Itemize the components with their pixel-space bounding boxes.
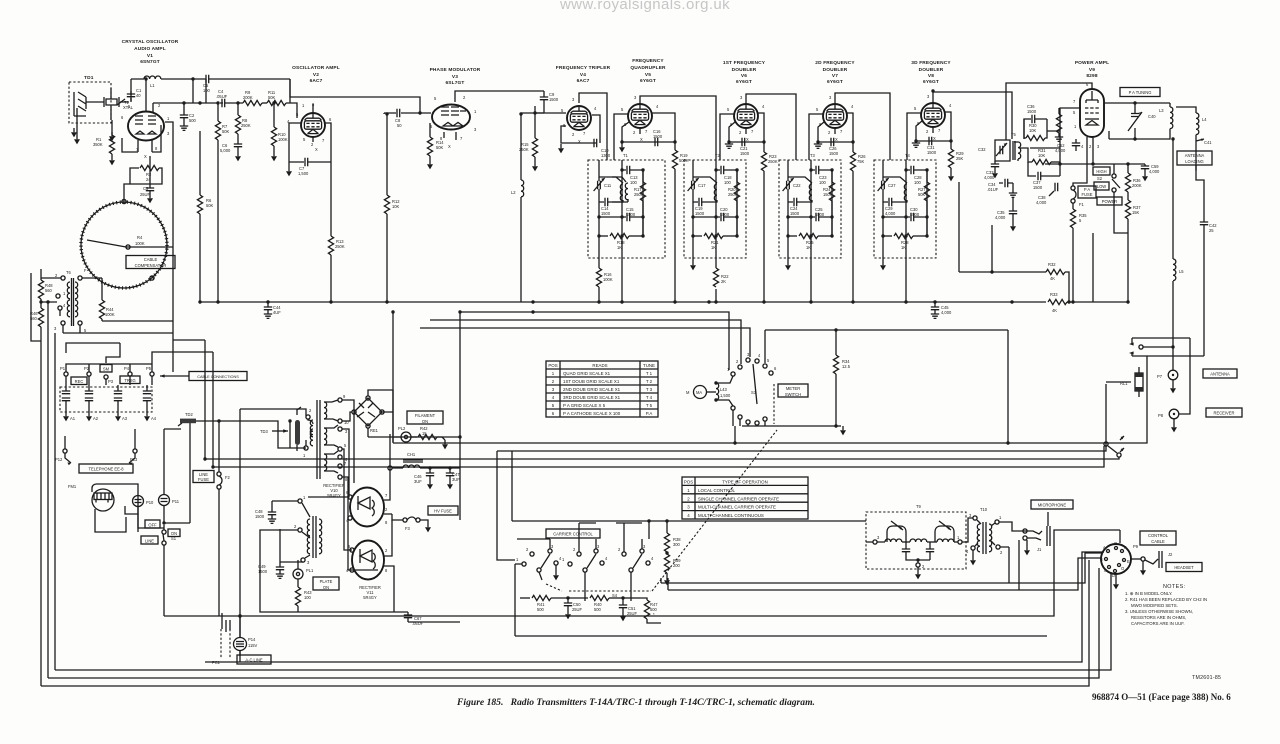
capacitor C1 40: [127, 88, 142, 102]
tube V5: [628, 104, 652, 128]
svg-text:6Y6GT: 6Y6GT: [923, 79, 939, 85]
plug P4: [124, 366, 132, 385]
svg-text:V7: V7: [832, 73, 838, 79]
transformer T2 dashed box: [684, 153, 746, 258]
resistor R44 100K: [63, 278, 173, 333]
label RECEIVER: [1206, 408, 1242, 417]
inductor L1: [144, 76, 161, 88]
svg-text:100: 100: [304, 595, 312, 600]
svg-text:OSCILLATOR AMPL: OSCILLATOR AMPL: [292, 65, 340, 71]
svg-text:TD3: TD3: [260, 429, 268, 434]
label POWER: [1097, 197, 1122, 205]
resistor R10 100K: [271, 103, 288, 161]
svg-text:MA: MA: [696, 390, 702, 395]
transformer T1 dashed box: [588, 153, 665, 258]
crystal T1: [104, 97, 134, 110]
svg-text:A2: A2: [93, 416, 99, 421]
capacitor C33 4,000: [984, 161, 999, 180]
svg-text:POS: POS: [684, 480, 693, 485]
wire: T6 left connections: [41, 278, 63, 333]
svg-text:50K: 50K: [268, 95, 276, 100]
wire: plate-on loop: [260, 529, 303, 612]
wire: bridge connections: [342, 390, 393, 442]
wire: V5 cathode bypass: [622, 122, 675, 142]
resistor R14 50K: [427, 123, 444, 169]
svg-text:COMPENSATOR: COMPENSATOR: [135, 263, 167, 268]
wire: carrier line to T9: [512, 451, 866, 539]
svg-text:V9: V9: [1089, 67, 1095, 73]
svg-text:E: E: [1127, 559, 1130, 564]
svg-text:P3: P3: [108, 379, 114, 384]
notes text: [1125, 584, 1207, 626]
svg-text:1500: 1500: [720, 212, 730, 217]
svg-text:100: 100: [203, 88, 211, 93]
svg-text:200K: 200K: [1132, 183, 1142, 188]
svg-text:L5: L5: [1179, 269, 1184, 274]
svg-text:100: 100: [630, 180, 638, 185]
ground TD1: [71, 128, 77, 137]
svg-text:METER: METER: [786, 386, 800, 391]
grid choke and ground: [1055, 108, 1063, 141]
wire: V6 cathode bypass: [729, 122, 764, 142]
svg-text:AUDIO AMPL: AUDIO AMPL: [134, 46, 166, 52]
svg-text:15: 15: [422, 431, 427, 436]
linkage S4 dashed: [539, 572, 542, 580]
switch S4 wafer 2: [562, 523, 608, 601]
svg-text:1ST DOUB GRID SCALE X1: 1ST DOUB GRID SCALE X1: [563, 379, 620, 384]
wire: HV riser: [394, 312, 460, 520]
wire: V1 cathode to R2: [149, 156, 151, 184]
resistor R39 200: [664, 551, 681, 585]
svg-text:R33: R33: [1050, 292, 1058, 297]
svg-text:L1: L1: [150, 83, 155, 88]
svg-text:DOUBLER: DOUBLER: [823, 67, 848, 73]
svg-text:X: X: [746, 137, 749, 142]
resistor R11 50K: [267, 90, 286, 106]
inductor L5: [1173, 139, 1184, 281]
label CONTROL CABLE: [1140, 531, 1176, 545]
wire: T10 drops: [1009, 540, 1019, 590]
svg-text:NOTES:: NOTES:: [1163, 584, 1185, 590]
resistor R38 300: [664, 521, 681, 554]
svg-text:T10: T10: [980, 507, 988, 512]
svg-text:QUAD GRID SCALE X1: QUAD GRID SCALE X1: [563, 371, 611, 376]
svg-text:1500: 1500: [549, 97, 559, 102]
svg-text:SM: SM: [103, 367, 110, 372]
svg-text:R32: R32: [1048, 262, 1056, 267]
svg-text:1500: 1500: [1027, 109, 1037, 114]
svg-text:6Y6GT: 6Y6GT: [640, 78, 656, 84]
capacitor C45 4,000: [931, 300, 952, 318]
svg-text:P12: P12: [55, 457, 63, 462]
svg-text:10K: 10K: [392, 204, 400, 209]
svg-text:50: 50: [397, 123, 402, 128]
svg-text:T 2: T 2: [646, 379, 653, 384]
inductor L4: [1176, 107, 1207, 171]
resistor R40 500: [568, 595, 623, 612]
label: frequency quadrupler title: [630, 58, 666, 84]
svg-text:REC: REC: [75, 379, 84, 384]
svg-text:POWER AMPL: POWER AMPL: [1075, 60, 1109, 66]
inductor L3: [1159, 103, 1173, 140]
capacitor C38 4,000: [1036, 183, 1058, 205]
svg-text:4K: 4K: [1052, 308, 1057, 313]
svg-text:1. ⊕ IN B MODEL ONLY.: 1. ⊕ IN B MODEL ONLY.: [1125, 591, 1172, 596]
svg-text:RECEIVER: RECEIVER: [1214, 411, 1235, 416]
wire: R34 line: [765, 330, 1008, 443]
svg-text:V5: V5: [645, 72, 651, 78]
svg-text:C27: C27: [888, 183, 896, 188]
resistor R43 100: [295, 587, 312, 612]
transformer T9 dashed box: [866, 504, 966, 569]
table POS READS TUNE: [546, 361, 658, 417]
plug P3 and SM: [100, 365, 114, 386]
wire: compensator top to V1 area: [124, 184, 130, 201]
resistor R26 75K: [850, 142, 866, 302]
resistor R18 1K: [599, 233, 643, 250]
label ANTENNA LOADING: [1177, 151, 1212, 165]
svg-text:200: 200: [673, 563, 681, 568]
capacitor C44 4UF: [264, 300, 281, 318]
svg-text:TD2: TD2: [185, 412, 193, 417]
tube V8: [921, 103, 945, 127]
resistor R1 350K: [93, 120, 115, 165]
svg-text:6Y6GT: 6Y6GT: [736, 79, 752, 85]
svg-text:100K: 100K: [603, 277, 613, 282]
lamp PL1: [293, 560, 314, 587]
wiper arm R4: [87, 240, 173, 247]
label: oscillator ampl title: [292, 65, 340, 84]
svg-text:12.5: 12.5: [842, 364, 851, 369]
svg-text:10K: 10K: [1029, 128, 1037, 133]
table POS TYPE OF OPERATION: [682, 477, 808, 519]
svg-text:X: X: [640, 137, 643, 142]
svg-text:RE1: RE1: [370, 428, 379, 433]
svg-text:HV FUSE: HV FUSE: [434, 509, 452, 514]
capacitor C24 1500: [790, 198, 800, 216]
wire: AC feed lines: [196, 409, 306, 616]
switch S1: [162, 421, 190, 616]
label TRSG: [120, 376, 140, 384]
tube V1: [128, 112, 164, 141]
resistor R29 25K: [948, 141, 964, 181]
T6 terminals: [54, 268, 87, 333]
svg-text:P A TUNING: P A TUNING: [1129, 90, 1152, 95]
svg-text:250K: 250K: [768, 159, 778, 164]
label HIGH: [1093, 167, 1110, 175]
svg-text:FM1: FM1: [68, 484, 77, 489]
svg-text:F2: F2: [225, 475, 231, 480]
wire: TD1 to V1 grid: [86, 88, 129, 120]
svg-text:1500: 1500: [255, 514, 265, 519]
capacitor C16 1500: [653, 129, 663, 146]
svg-text:CRYSTAL OSCILLATOR: CRYSTAL OSCILLATOR: [122, 39, 179, 45]
svg-text:R4: R4: [137, 235, 143, 240]
telephone capacitor bank dashed box: [60, 387, 152, 412]
wire: carrier outputs to P9: [661, 553, 1103, 590]
svg-text:1500: 1500: [653, 134, 663, 139]
svg-text:6Y6GT: 6Y6GT: [827, 79, 843, 85]
svg-text:FUSE: FUSE: [198, 477, 209, 482]
svg-text:25UF: 25UF: [572, 607, 583, 612]
capacitor C7 1500: [286, 158, 331, 177]
svg-text:A1: A1: [70, 416, 76, 421]
capacitor C51 25UF: [619, 596, 638, 621]
svg-text:1500: 1500: [1033, 185, 1043, 190]
resistor R36 200K: [1125, 164, 1141, 192]
wire: V10 heater leads: [308, 400, 392, 514]
resistor R35 5: [1070, 203, 1087, 302]
capacitor C21 1500: [740, 138, 750, 156]
svg-text:J1: J1: [1037, 547, 1042, 552]
capacitor C50 25UF: [564, 596, 583, 619]
resistor R25 1K: [788, 233, 832, 250]
label MICROPHONE: [1031, 500, 1073, 509]
capacitor C10 1300: [594, 139, 611, 158]
svg-text:ON: ON: [422, 419, 428, 424]
label METER SWITCH: [778, 384, 808, 397]
capacitor C25 1500: [788, 207, 832, 221]
capacitor C13 100: [622, 166, 643, 185]
svg-text:C41: C41: [1204, 140, 1212, 145]
wire: plate branch down to C2: [192, 79, 194, 103]
svg-text:100K: 100K: [135, 241, 145, 246]
svg-text:HIGH: HIGH: [1096, 169, 1106, 174]
variable capacitor C41: [1196, 139, 1212, 145]
svg-text:MICROPHONE: MICROPHONE: [1038, 503, 1066, 508]
svg-text:3RD DOUB GRID SCALE X1: 3RD DOUB GRID SCALE X1: [563, 395, 621, 400]
choke L43 1500: [714, 381, 731, 401]
svg-text:POS: POS: [548, 363, 557, 368]
jack contacts in TD1: [78, 92, 86, 111]
svg-text:P A GRID SCALE X 5: P A GRID SCALE X 5: [563, 403, 606, 408]
resistor R46 560: [30, 299, 44, 686]
capacitor C15 1500: [599, 207, 643, 221]
resistor R16 100K: [596, 253, 612, 302]
pin numbers V9: [1073, 82, 1100, 149]
wire: V4 screen stub: [592, 115, 600, 143]
svg-text:V3: V3: [452, 74, 458, 80]
wire: PA tank top: [1104, 103, 1170, 139]
wire: V3 plate top: [455, 91, 544, 102]
svg-text:300: 300: [673, 542, 681, 547]
wire: [225, 102, 243, 104]
svg-text:TM2601-85: TM2601-85: [1192, 675, 1221, 681]
svg-text:115V: 115V: [248, 643, 258, 648]
svg-text:L43: L43: [720, 387, 728, 392]
svg-text:M: M: [686, 390, 690, 395]
capacitor C14 1500: [601, 198, 611, 216]
capacitor C37 1500: [1028, 162, 1060, 190]
svg-text:8298: 8298: [1086, 73, 1097, 79]
svg-text:PHASE MODULATOR: PHASE MODULATOR: [430, 67, 481, 73]
svg-text:P5: P5: [146, 366, 152, 371]
wire: [262, 102, 267, 104]
V10 pins: [346, 490, 388, 525]
svg-text:1500: 1500: [790, 211, 800, 216]
wire: bottom bus inner: [205, 552, 1104, 662]
T7 terminals: [294, 495, 310, 565]
capacitor C35 4,000: [995, 198, 1017, 231]
wire: V4 plate: [579, 93, 607, 160]
svg-text:50K: 50K: [918, 192, 926, 197]
svg-text:MULTI-CHANNEL CONTINUOUS: MULTI-CHANNEL CONTINUOUS: [698, 513, 764, 518]
capacitor C36 1500: [1024, 104, 1047, 139]
autotransformer TD2: [178, 412, 196, 426]
svg-text:4K: 4K: [1050, 276, 1055, 281]
capacitor C67 .05UF: [298, 612, 460, 626]
svg-text:CABLE: CABLE: [1151, 539, 1165, 544]
wire: V8 plate run to T5: [933, 92, 1012, 139]
svg-text:Figure 185. Radio Transmitte: Figure 185. Radio Transmitters T-14A/TRC…: [456, 697, 815, 708]
svg-text:100: 100: [914, 180, 922, 185]
svg-text:350K: 350K: [93, 142, 103, 147]
svg-text:L2: L2: [511, 190, 516, 195]
potentiometer R4 cable compensator ring: [81, 202, 167, 288]
svg-text:G: G: [1114, 541, 1117, 546]
lamp PL2: [368, 426, 411, 442]
svg-text:T 3: T 3: [646, 387, 653, 392]
svg-text:T3: T3: [810, 153, 816, 158]
resistor R41 500: [520, 595, 568, 612]
svg-text:V2: V2: [313, 72, 319, 78]
wire: control bundle line 4: [213, 446, 1104, 467]
capacitor C4 .05UF: [216, 89, 228, 107]
svg-text:PL2: PL2: [398, 426, 406, 431]
capacitors A-line: [62, 385, 151, 406]
svg-text:SWITCH: SWITCH: [785, 392, 801, 397]
tube V3: [432, 105, 470, 130]
capacitor C29 4,000: [885, 198, 896, 216]
label PLATE ON: [313, 577, 339, 590]
antenna changeover switch: [1129, 338, 1204, 414]
wire: bottom bus outermost: [41, 560, 1089, 686]
resistor R37 15K: [1125, 192, 1141, 233]
svg-text:V4: V4: [580, 72, 586, 78]
svg-text:V6: V6: [741, 73, 747, 79]
wire: tank verticals: [906, 160, 927, 302]
variable capacitor C17: [688, 160, 707, 253]
wire: control bundle line 3: [205, 457, 1119, 459]
wire: V8 screen drop: [945, 112, 951, 141]
autotransformer TD3: [260, 407, 301, 451]
svg-text:X: X: [933, 136, 936, 141]
svg-text:CARRIER CONTROL: CARRIER CONTROL: [553, 532, 593, 537]
capacitor C46 3UF: [414, 468, 434, 489]
label PA FUSE: [1078, 186, 1096, 198]
svg-text:250K: 250K: [335, 244, 345, 249]
label FILAMENT ON: [407, 411, 443, 424]
svg-text:P7: P7: [1157, 374, 1163, 379]
svg-text:CH1: CH1: [407, 452, 416, 457]
label: 2d frequency doubler title: [815, 60, 855, 85]
plug P2: [84, 366, 91, 385]
resistor R17 250K: [634, 170, 646, 236]
label HV FUSE: [428, 506, 458, 515]
wire: T10 to J1: [999, 512, 1048, 547]
svg-text:C3: C3: [143, 186, 149, 191]
svg-text:P4: P4: [124, 366, 130, 371]
pin numbers V2: [287, 102, 332, 152]
svg-text:A: A: [1103, 545, 1106, 550]
wire: T9 to T10: [962, 518, 973, 556]
svg-text:C: C: [1104, 568, 1107, 573]
wire: V3 cathode: [444, 132, 456, 140]
plug P5: [146, 366, 154, 385]
capacitor C48 1500: [255, 501, 298, 523]
label: phase modulator title: [430, 67, 481, 86]
wire: V2 plate feed: [290, 79, 420, 113]
variable capacitor C22: [783, 160, 802, 253]
svg-text:TYPE OF OPERATION: TYPE OF OPERATION: [722, 480, 768, 485]
svg-text:P10: P10: [146, 500, 154, 505]
svg-text:S4: S4: [612, 593, 618, 598]
svg-text:V8: V8: [928, 73, 934, 79]
svg-text:T5: T5: [1011, 132, 1017, 137]
label TELEPHONE EE-8: [79, 464, 133, 473]
svg-text:C32: C32: [978, 147, 986, 152]
wire: control bundle line 1: [393, 312, 1147, 443]
resistor R28 1K: [883, 233, 927, 250]
capacitor C52 4,000: [1055, 139, 1080, 153]
svg-text:5,000: 5,000: [220, 148, 231, 153]
wire: carrier top rails: [515, 523, 1047, 636]
plug P1: [60, 366, 68, 385]
svg-text:P14: P14: [248, 637, 256, 642]
resistor R22 2K: [690, 253, 696, 270]
capacitor C59 4,000: [1141, 164, 1160, 181]
svg-text:3D FREQUENCY: 3D FREQUENCY: [911, 60, 951, 66]
svg-text:50K: 50K: [206, 203, 214, 208]
svg-text:P A CATHODE SCALE X 100: P A CATHODE SCALE X 100: [563, 411, 621, 416]
wire: B+ line to PA: [1092, 233, 1094, 302]
wire: V8 cathode bypass: [916, 121, 951, 141]
svg-text:1,500: 1,500: [298, 171, 309, 176]
svg-text:A4: A4: [151, 416, 157, 421]
svg-text:T6: T6: [66, 270, 72, 275]
wire: screen line: [1045, 163, 1145, 165]
svg-text:TRSG: TRSG: [124, 378, 135, 383]
capacitor C18 100: [716, 166, 737, 185]
wire: FM1 leads: [95, 509, 138, 532]
resistor R6 50K: [197, 131, 213, 302]
plug P10: [133, 496, 165, 529]
capacitor C42 25: [1200, 222, 1217, 233]
svg-text:4,000: 4,000: [984, 175, 995, 180]
resistor R13 250K: [328, 162, 344, 302]
resistor R27 50K: [918, 170, 930, 236]
wire: V7 grid from T3: [809, 114, 823, 160]
label ON: [168, 529, 180, 537]
connector P9: [1100, 541, 1139, 589]
capacitor C49 1500: [258, 530, 298, 578]
label REC: [71, 377, 87, 385]
svg-text:O: O: [1121, 566, 1124, 571]
svg-text:100: 100: [819, 180, 827, 185]
label: 1st frequency doubler title: [723, 60, 766, 85]
svg-text:T9: T9: [916, 504, 922, 509]
svg-text:TD1: TD1: [84, 75, 94, 81]
svg-text:QUADRUPLER: QUADRUPLER: [630, 65, 666, 71]
wire: tank verticals: [622, 160, 643, 302]
wire: V2 grid left loop: [289, 123, 313, 162]
svg-text:200K: 200K: [243, 95, 253, 100]
jack J2: [1131, 551, 1173, 575]
tube V11: [352, 541, 384, 580]
label LOW: [1094, 182, 1109, 190]
label OFF: [145, 520, 160, 528]
svg-text:MWO MODIFIED SETS.: MWO MODIFIED SETS.: [1131, 603, 1178, 608]
